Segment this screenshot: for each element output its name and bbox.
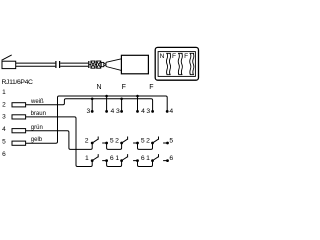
svg-text:1: 1 <box>115 155 119 162</box>
svg-text:5: 5 <box>2 139 6 146</box>
svg-text:3: 3 <box>146 108 150 115</box>
svg-text:4: 4 <box>169 108 173 115</box>
svg-text:N: N <box>160 53 165 60</box>
svg-text:5: 5 <box>141 137 145 144</box>
svg-text:N: N <box>96 84 101 91</box>
svg-text:5: 5 <box>110 137 114 144</box>
svg-text:RJ11/6P4C: RJ11/6P4C <box>2 79 34 86</box>
svg-text:2: 2 <box>85 137 89 144</box>
svg-text:braun: braun <box>31 111 46 117</box>
svg-text:4: 4 <box>141 108 145 115</box>
svg-text:3: 3 <box>87 108 91 115</box>
svg-text:weiß: weiß <box>30 99 44 105</box>
svg-text:6: 6 <box>110 155 114 162</box>
svg-text:3: 3 <box>2 114 6 121</box>
svg-text:6: 6 <box>141 155 145 162</box>
svg-text:6: 6 <box>169 155 173 162</box>
svg-text:4: 4 <box>111 108 115 115</box>
svg-text:grün: grün <box>31 125 43 131</box>
svg-text:2: 2 <box>2 101 6 108</box>
svg-text:2: 2 <box>146 137 150 144</box>
svg-text:1: 1 <box>85 155 89 162</box>
svg-text:F: F <box>184 53 188 60</box>
svg-text:5: 5 <box>169 137 173 144</box>
svg-text:6: 6 <box>2 151 6 158</box>
svg-text:F: F <box>122 84 126 91</box>
svg-text:1: 1 <box>2 89 6 96</box>
svg-text:4: 4 <box>2 126 6 133</box>
svg-text:gelb: gelb <box>31 137 43 143</box>
svg-text:1: 1 <box>146 155 150 162</box>
svg-text:F: F <box>172 53 176 60</box>
svg-text:2: 2 <box>115 137 119 144</box>
svg-text:F: F <box>149 84 153 91</box>
svg-text:3: 3 <box>116 108 120 115</box>
